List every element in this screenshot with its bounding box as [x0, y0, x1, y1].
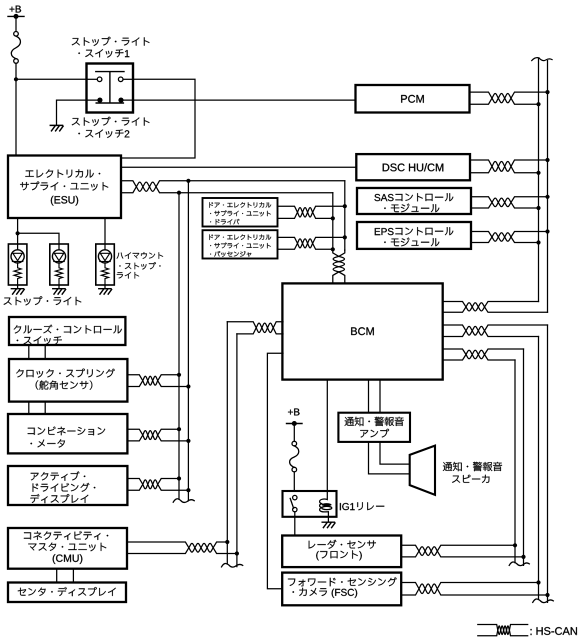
bus wire door right (ESU pair top): [344, 181, 346, 251]
wire fuse F2 to relay: [293, 472, 295, 491]
node radar pair bottom: [521, 555, 525, 559]
high mount stop light lamp: [96, 244, 115, 289]
wire clock spring to combination meter: [29, 402, 45, 414]
wire BCM to IG1 relay coil: [326, 380, 328, 500]
label stop light: [4, 296, 82, 305]
twisted pair radar sensor: [401, 545, 523, 557]
ground (stop light 1): [11, 289, 24, 294]
vertical twisted pair into BCM: [333, 250, 345, 283]
twisted pair door driver: [278, 206, 345, 218]
twisted pair BCM lower CAN: [443, 325, 548, 337]
bus wire CAN right lower: [547, 325, 549, 602]
active driving display box: [8, 466, 127, 505]
wire ESU to high mount lamp: [104, 218, 106, 244]
node clock pair bottom: [186, 384, 190, 388]
node ADD pair top: [177, 476, 181, 480]
door ESU driver box: [203, 198, 278, 227]
bus wire radar branch left: [514, 360, 516, 563]
twisted pair ESU HS-CAN: [121, 181, 345, 193]
bus wire CAN left upper: [538, 58, 540, 301]
wire switch 2 to PCM: [133, 99, 356, 101]
wire switch1 internal right: [123, 78, 133, 80]
twisted pair BCM upper CAN: [443, 302, 548, 313]
power +B terminal (stop light supply): [8, 6, 24, 19]
wire CMU to center display: [57, 569, 74, 583]
node EPS pair top: [545, 229, 549, 233]
twisted pair door passenger: [278, 237, 345, 249]
bus wire L179: [178, 193, 180, 500]
ground (stop light 2): [53, 289, 66, 294]
DSC HU/CM box: [356, 154, 470, 180]
wire node A to switch 1: [16, 78, 87, 80]
CMU box: [8, 528, 127, 569]
wire CMU bus bottom: [236, 334, 238, 567]
node CMU pair top: [225, 540, 229, 544]
twisted pair DSC: [470, 160, 548, 173]
PCM box: [356, 85, 470, 113]
legend HS-CAN twisted pair symbol: [478, 625, 528, 636]
twisted pair active driving display: [127, 479, 188, 491]
notification alarm amp box: [338, 413, 410, 442]
fuse F1 (stop light): [11, 32, 20, 64]
twisted pair BCM radar branch: [443, 349, 524, 360]
node CMU pair bottom: [235, 551, 239, 555]
wire relay coil to ground: [327, 512, 329, 522]
center display box: [8, 583, 126, 603]
wire amp to speaker lower: [369, 442, 410, 474]
SAS control module box: [357, 188, 471, 214]
switch 1 contact right: [118, 77, 123, 82]
twisted pair EPS: [471, 232, 548, 243]
twisted pair CMU: [127, 542, 237, 554]
continuation mark FSC buses: [533, 599, 554, 603]
relay contact: [290, 495, 297, 511]
node door passenger top: [343, 235, 347, 239]
node clock pair top: [177, 373, 181, 377]
bus wire door left (ESU pair bottom): [332, 193, 334, 251]
BCM box: [282, 283, 442, 379]
node ADD pair bottom: [186, 488, 190, 492]
node SAS pair bottom: [536, 206, 540, 210]
bus wire CAN left lower: [538, 337, 540, 600]
label HS-CAN legend: [531, 627, 577, 635]
fuse F2 (IG1): [290, 441, 299, 472]
ground (stop light switch 2): [50, 125, 63, 130]
node PCM pair bottom: [536, 102, 540, 106]
label high mount stop light: [117, 252, 163, 278]
wire +B2 to fuse F2: [293, 424, 295, 442]
wire ESU to stop lights: [17, 218, 19, 244]
wire amp to speaker upper: [380, 442, 410, 464]
wire switch 2 to ground: [57, 100, 87, 125]
node SAS pair top: [545, 195, 549, 199]
node meter pair bottom: [186, 439, 190, 443]
node DSC pair top: [545, 158, 549, 162]
wire branch to stop light 2: [18, 233, 59, 244]
wire switch 1 to ESU: [121, 79, 195, 158]
label speaker: [443, 462, 502, 483]
forward sensing camera box: [282, 573, 401, 606]
stop light lamp 2: [50, 244, 69, 289]
node ESU pair top to bus R188: [186, 179, 190, 183]
node A junction: [14, 77, 18, 81]
twisted pair SAS: [471, 197, 548, 208]
node EPS pair bottom: [536, 240, 540, 244]
notification alarm speaker horn: [410, 446, 435, 495]
wire ESU to DSC HU/CM: [121, 166, 356, 168]
twisted pair FSC: [401, 583, 547, 596]
ground (IG1 relay coil): [322, 522, 335, 527]
twisted pair PCM: [470, 92, 548, 104]
IG1 relay box: [283, 491, 337, 517]
switch 2 contact right: [118, 98, 123, 103]
twisted pair BCM to CMU: [227, 322, 283, 334]
switch plunger: [96, 72, 124, 103]
wire relay contact to radar sensor: [294, 512, 296, 536]
twisted pair combination meter: [127, 429, 188, 441]
wire CMU bus top: [226, 322, 228, 564]
switch 1 contact left: [97, 77, 102, 82]
continuation mark left buses: [173, 499, 194, 503]
node stop light branch: [16, 231, 20, 235]
wire BCM to amp left: [368, 380, 370, 413]
door ESU passenger box: [203, 230, 278, 258]
power +B terminal (IG1 relay): [287, 409, 303, 427]
ESU box (electrical supply unit): [8, 156, 121, 219]
relay coil: [320, 491, 332, 512]
twisted pair clock spring: [127, 375, 188, 387]
node door driver bottom: [331, 216, 335, 220]
bus wire radar branch right: [523, 349, 525, 565]
wire BCM to FSC: [267, 353, 283, 589]
combination meter box: [8, 414, 127, 453]
wire fuse F1 to node A: [15, 63, 17, 79]
wire +B to fuse F1: [15, 16, 17, 31]
wire node A to ESU top: [15, 79, 17, 155]
bus wire R188: [187, 181, 189, 501]
node PCM pair top: [545, 90, 549, 94]
node ESU pair bottom to bus L179: [177, 191, 181, 195]
continuation mark radar buses: [509, 562, 529, 566]
node meter pair top: [177, 427, 181, 431]
stop light lamp 1: [8, 244, 27, 289]
node radar pair top: [513, 543, 517, 547]
wire switch2 internal: [87, 99, 134, 101]
node FSC pair top: [536, 580, 540, 584]
continuation mark CMU buses: [222, 563, 243, 567]
node FSC pair bottom: [545, 593, 549, 597]
wire cruise to clock spring: [29, 345, 45, 359]
clock spring box: [9, 359, 127, 402]
continuation mark top of CAN bus: [532, 58, 552, 61]
ground (high mount stop light): [99, 289, 112, 294]
node DSC pair bottom: [536, 171, 540, 175]
switch 2 contact left: [97, 98, 102, 103]
radar sensor box: [282, 536, 401, 568]
EPS control module box: [357, 222, 471, 249]
bus wire CAN right upper: [547, 61, 549, 313]
wire switch1 internal left: [87, 78, 98, 80]
label stop light switch 1: [72, 37, 150, 58]
label IG1 relay: [340, 502, 384, 510]
node door passenger bottom: [331, 247, 335, 251]
cruise control switch box: [9, 317, 125, 345]
wire BCM to amp right: [379, 380, 381, 413]
label stop light switch 2: [72, 117, 150, 138]
node door driver top: [343, 204, 347, 208]
stop light switch box: [87, 64, 134, 113]
